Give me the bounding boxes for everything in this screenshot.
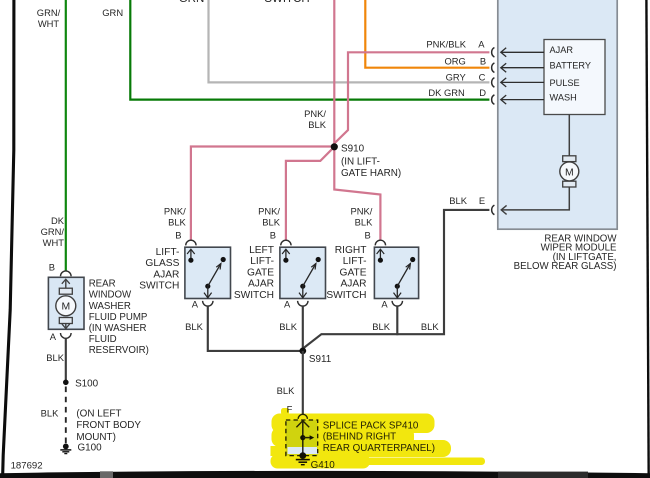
svg-text:GLASS: GLASS [145, 258, 179, 269]
svg-text:BATTERY: BATTERY [550, 61, 592, 71]
svg-text:BLK: BLK [355, 217, 373, 228]
svg-text:E: E [479, 195, 485, 206]
svg-text:PNK/: PNK/ [258, 205, 280, 216]
svg-text:FLUID: FLUID [89, 334, 117, 345]
svg-text:RESERVOIR): RESERVOIR) [89, 345, 149, 356]
caption SW3 [326, 245, 366, 301]
svg-text:BLK: BLK [449, 195, 467, 206]
svg-text:BLK: BLK [262, 217, 280, 228]
svg-text:PNK/: PNK/ [304, 108, 326, 119]
wire BLK SW2 pin A to S911 [302, 306, 304, 351]
svg-text:BLK: BLK [421, 321, 439, 332]
svg-text:G100: G100 [78, 443, 103, 454]
module pin connector D [492, 95, 495, 105]
module internal arrow pin A [501, 48, 544, 57]
page border left [3, 0, 14, 478]
svg-text:B: B [175, 229, 181, 240]
svg-text:SWITCH: SWITCH [234, 290, 274, 301]
svg-text:WINDOW: WINDOW [89, 290, 132, 301]
svg-text:PNK/: PNK/ [164, 205, 186, 216]
wire BLK S911 to splice pack F [302, 351, 304, 414]
svg-text:BLK: BLK [185, 321, 203, 332]
module internal arrow pin D [501, 95, 544, 104]
washer pump connector A [61, 333, 72, 338]
wire GRN / DK GRN to pin D [130, 0, 489, 100]
svg-text:DK: DK [51, 215, 65, 226]
svg-text:FLUID PUMP: FLUID PUMP [89, 312, 148, 323]
svg-text:SWITCH: SWITCH [326, 290, 366, 301]
svg-text:GRN: GRN [179, 0, 205, 5]
svg-text:B: B [270, 229, 276, 240]
svg-text:GATE: GATE [340, 267, 367, 278]
wire PNK/BLK S910 to right lift-gate ajar switch pin B [334, 147, 380, 241]
module internal arrow pin C [501, 78, 544, 87]
svg-text:GRN/: GRN/ [41, 226, 65, 237]
svg-text:BLK: BLK [168, 217, 186, 228]
svg-text:LIFT-: LIFT- [343, 256, 367, 267]
svg-text:RIGHT: RIGHT [335, 245, 367, 256]
svg-text:ORG: ORG [444, 55, 465, 66]
svg-text:AJAR: AJAR [340, 279, 366, 290]
svg-text:AJAR: AJAR [153, 269, 179, 280]
svg-text:GRN: GRN [102, 7, 123, 18]
ground G410 [296, 452, 310, 465]
svg-text:A: A [284, 298, 291, 309]
svg-text:AJAR: AJAR [550, 45, 574, 55]
svg-text:A: A [381, 298, 388, 309]
svg-text:(ON LEFT: (ON LEFT [76, 409, 121, 420]
svg-text:A: A [192, 298, 199, 309]
svg-text:WHT: WHT [38, 18, 60, 29]
svg-text:A: A [478, 38, 485, 49]
svg-text:REAR: REAR [89, 279, 116, 290]
wire PNK/BLK S910 to lift-glass ajar switch pin B [191, 147, 334, 241]
svg-text:WASHER: WASHER [89, 301, 131, 312]
svg-text:S910: S910 [341, 144, 365, 155]
svg-text:187692: 187692 [11, 461, 43, 472]
svg-text:BELOW REAR GLASS): BELOW REAR GLASS) [514, 261, 617, 272]
svg-text:B: B [49, 262, 55, 273]
svg-text:BLK: BLK [279, 321, 297, 332]
wire BLK pump to S100 [65, 338, 67, 380]
svg-text:SWITCH: SWITCH [139, 281, 179, 292]
module pin connector E [492, 205, 495, 215]
svg-text:DK GRN: DK GRN [428, 87, 464, 98]
svg-text:C: C [479, 71, 486, 82]
washer pump caption [89, 279, 149, 356]
splice S911 [299, 348, 306, 355]
svg-text:GATE HARN): GATE HARN) [341, 168, 401, 179]
washer pump connector B [61, 271, 72, 276]
wire GRY to pin C [209, 0, 490, 82]
svg-text:(IN LIFT-: (IN LIFT- [341, 157, 380, 168]
svg-text:PNK/BLK: PNK/BLK [426, 38, 466, 49]
svg-text:B: B [365, 229, 371, 240]
svg-text:S100: S100 [75, 379, 99, 390]
washer pump box [48, 277, 84, 329]
svg-text:GRY: GRY [446, 71, 467, 82]
page border right [646, 0, 648, 478]
connector F [298, 414, 307, 419]
svg-text:BLK: BLK [41, 408, 59, 419]
svg-text:WHT: WHT [43, 237, 65, 248]
wire GRN/WHT vertical to washer pump [65, 0, 67, 271]
wire PNK/BLK vertical from top to S910 [333, 0, 335, 147]
module pin connector B [492, 63, 495, 73]
svg-text:B: B [480, 56, 486, 67]
wire ORG to pin B [365, 0, 489, 68]
rear window wiper module box U1 [498, 0, 617, 229]
svg-text:D: D [479, 87, 486, 98]
module internal arrow pin B [501, 63, 544, 72]
module pin connector C [492, 78, 495, 88]
module caption [514, 233, 618, 272]
svg-text:PULSE: PULSE [550, 78, 580, 88]
washer pump motor M [56, 279, 76, 328]
svg-text:LEFT: LEFT [249, 245, 274, 256]
wire PNK/BLK from pin A to S910 [334, 52, 489, 147]
wire PNK/BLK S910 to left lift-gate ajar switch pin B [286, 147, 334, 241]
wire BLK pin E to bus [303, 210, 490, 349]
wire BLK SW3 pin A to bus [396, 306, 398, 335]
label SPLICE PACK SP410 [323, 420, 435, 454]
svg-text:M: M [565, 167, 574, 178]
svg-text:LIFT-: LIFT- [156, 247, 180, 258]
svg-text:FRONT BODY: FRONT BODY [76, 420, 141, 431]
svg-text:SWITCH: SWITCH [264, 0, 309, 5]
svg-text:MOUNT): MOUNT) [76, 432, 116, 443]
svg-text:GATE: GATE [247, 267, 274, 278]
splice S910 [331, 143, 338, 150]
svg-text:M: M [61, 302, 70, 313]
svg-text:AJAR: AJAR [248, 279, 274, 290]
svg-text:BLK: BLK [46, 352, 64, 363]
yellow highlighter over splice pack SP410 [271, 408, 486, 469]
svg-text:(IN WASHER: (IN WASHER [89, 323, 147, 334]
svg-text:BLK: BLK [308, 119, 326, 130]
left lift-gate ajar switch SW2 [280, 240, 326, 306]
svg-text:LIFT-: LIFT- [250, 256, 274, 267]
splice pack internal bus with up arrow [296, 421, 314, 456]
svg-text:PNK/: PNK/ [351, 205, 373, 216]
svg-text:S911: S911 [309, 354, 332, 365]
page border bottom bar [0, 471, 650, 478]
svg-text:WASH: WASH [550, 93, 577, 103]
svg-text:BLK: BLK [277, 385, 295, 396]
splice S100 [63, 380, 69, 386]
caption SW1 [139, 247, 179, 292]
lift-glass ajar switch SW1 [185, 240, 231, 306]
svg-text:GRN/: GRN/ [37, 7, 61, 18]
module wiper motor M [560, 115, 579, 188]
right lift-gate ajar switch SW3 [374, 240, 418, 306]
label (ON LEFT FRONT BODY MOUNT) [76, 409, 141, 443]
wire BLK SW1 pin A to S911 [208, 306, 303, 351]
module pin connector A [492, 48, 495, 58]
caption SW2 [234, 245, 274, 301]
svg-text:A: A [50, 331, 57, 342]
wire BLK dashed S100 to G100 [65, 387, 67, 445]
module internal input block (AJAR/BATTERY/PULSE/WASH) [544, 40, 605, 115]
svg-text:BLK: BLK [372, 321, 390, 332]
ground G100 [60, 444, 71, 454]
module motor wire to pin E with arrow [501, 187, 569, 214]
splice pack SP410 dashed box [286, 420, 318, 456]
